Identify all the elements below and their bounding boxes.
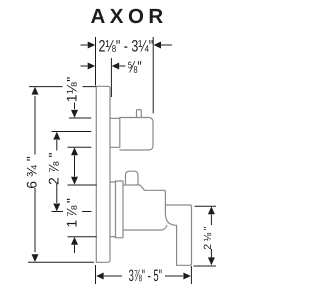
- svg-text:2⅞": 2⅞": [46, 149, 62, 185]
- ext line wall face (left of top dims): [95, 37, 97, 86]
- 6 3/4 top arrow: [32, 87, 39, 95]
- lower valve dome button: [126, 171, 139, 184]
- 2 1/8 lever dim ext top: [195, 205, 217, 207]
- 1 1/8 ext top (cylinder top): [69, 117, 91, 119]
- 2 7/8 top arrow: [53, 132, 60, 140]
- 2 7/8 ext bottom (knob center): [52, 211, 92, 213]
- white mask behind 1 1/8 text: [63, 76, 83, 103]
- 1 7/8 down arrow (to knob top): [71, 177, 78, 185]
- 2 7/8 dim line: [56, 140, 58, 151]
- bottom dim right arrow: [183, 273, 191, 280]
- svg-text:1⅛": 1⅛": [64, 76, 80, 102]
- 2 1/8 lever dim ext bottom: [194, 265, 217, 267]
- 2 1/8 lever bottom arrow: [208, 257, 215, 265]
- thermostat grip button: [137, 110, 142, 118]
- dim line tails: top dim: [81, 44, 88, 46]
- 6 3/4 bottom arrow: [32, 254, 39, 262]
- lever handle: [165, 205, 191, 265]
- 6 3/4 ext bottom: [28, 261, 94, 263]
- svg-text:1⅞": 1⅞": [64, 196, 80, 228]
- svg-text:⅝": ⅝": [127, 58, 141, 76]
- 5/8 left arrow: [88, 63, 96, 70]
- wall plate (escutcheon side profile): [96, 86, 110, 262]
- 1 7/8 up arrow (to flange bottom): [71, 237, 78, 245]
- bottom dim left arrow: [96, 273, 104, 280]
- ext line sleeve front (5/8 dim right): [110, 58, 112, 97]
- thermostat handle cylinder: [120, 118, 153, 151]
- 1 1/8 dim line upper: [74, 102, 76, 110]
- bottom dim ext right: [190, 266, 192, 284]
- 1 1/8 up arrow (from below, to sleeve bottom): [71, 147, 78, 155]
- bottom dim ext left: [95, 265, 97, 284]
- 1 1/8 ext bottom (sleeve bottom): [68, 146, 92, 148]
- 1 7/8 lower shaft: [74, 245, 76, 253]
- 2 1/8 lever dim line: [210, 215, 212, 226]
- 1 7/8 ext top (knob top): [68, 184, 97, 186]
- 6 3/4 ext top: [29, 86, 96, 88]
- 1 1/8 / 1 7/8 shared shaft: [74, 156, 76, 177]
- 2 7/8 bottom arrow: [53, 204, 60, 212]
- lower valve connector top: [110, 181, 116, 183]
- 6 3/4 dim line: [34, 96, 36, 155]
- svg-text:6¾": 6¾": [24, 152, 40, 188]
- top dim right arrow: [154, 42, 162, 49]
- ext line handle front (right of 2 1/8-3 1/4 dim): [152, 37, 154, 113]
- volume knob body top + front face + lever fillet + lever inner edge: [123, 185, 177, 265]
- lower valve flange: [116, 181, 124, 238]
- svg-text:AXOR: AXOR: [91, 5, 168, 28]
- lower valve connector bottom: [110, 236, 116, 238]
- white mask behind 1 7/8 text: [63, 196, 82, 228]
- 1 7/8 ext bottom: [68, 236, 97, 238]
- svg-text:2⅛" - 3¼": 2⅛" - 3¼": [99, 38, 154, 56]
- 2 1/8 lever top arrow: [208, 206, 215, 214]
- 5/8 right arrow: [112, 63, 120, 70]
- 2 7/8 ext top (cylinder center): [52, 131, 92, 133]
- svg-text:2⅛": 2⅛": [202, 224, 214, 250]
- dim line tails: 5/8 dim: [81, 65, 88, 67]
- top dim left arrow: [88, 42, 96, 49]
- 1 1/8 down arrow (to cylinder top): [71, 110, 78, 118]
- bottom dim tails: [104, 275, 122, 277]
- knob bottom: [123, 225, 167, 230]
- svg-text:3⅞" - 5": 3⅞" - 5": [129, 267, 162, 285]
- upper valve sleeve: [110, 118, 120, 147]
